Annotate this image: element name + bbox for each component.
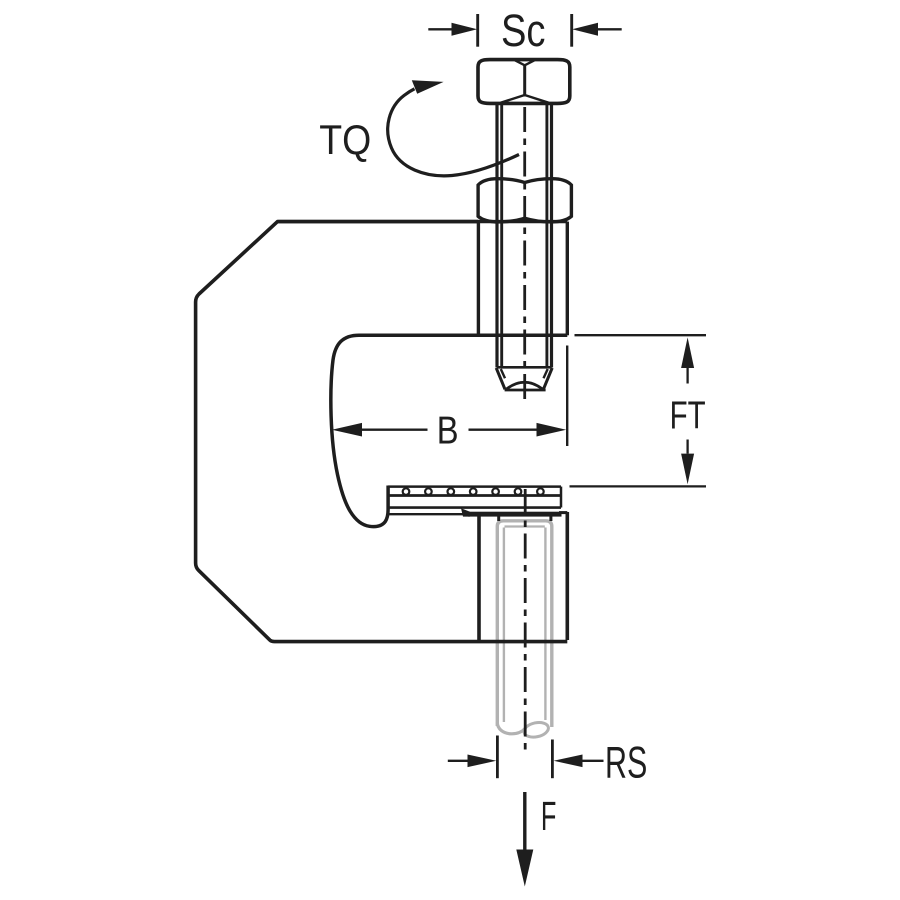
bolt tip bottom edge: [505, 389, 546, 392]
dimension RS left line: [448, 760, 468, 762]
rod top left corner black bit: [497, 515, 500, 522]
hex bolt head face divider: [523, 65, 526, 97]
torque arc arrowhead: [412, 80, 444, 94]
dimension B right line: [469, 429, 538, 431]
hex nut outline: [478, 179, 571, 222]
svg-text:F: F: [541, 793, 557, 839]
svg-text:FT: FT: [670, 394, 706, 437]
force arrow line: [523, 792, 526, 851]
serration circle 3: [448, 488, 455, 495]
dimension B right extension line: [566, 346, 568, 447]
bolt shaft outer right line: [550, 103, 553, 367]
serration circle 7: [537, 488, 544, 495]
threaded rod inner top line: [505, 525, 545, 527]
jaw plate bottom thick band: [468, 512, 562, 517]
lower block top right corner: [559, 511, 567, 514]
jaw plate middle line: [388, 494, 561, 497]
svg-text:TQ: TQ: [319, 116, 371, 163]
bolt boss right edge: [566, 222, 569, 336]
jaw plate top edge: [388, 485, 561, 488]
threaded rod bottom ellipse: [523, 720, 550, 739]
bolt centerline: [523, 107, 526, 402]
bolt tip shoulder line: [497, 366, 552, 369]
hex bolt head bottom chamfer V: [501, 95, 549, 103]
hex bolt head outline: [478, 60, 570, 104]
dimension B right arrowhead: [537, 423, 567, 437]
threaded rod inner left line: [503, 528, 505, 723]
dimension Sc left arrowhead: [452, 23, 478, 36]
svg-text:Sc: Sc: [501, 5, 546, 56]
threaded rod inner right line: [544, 528, 546, 721]
bolt boss left edge: [477, 222, 480, 336]
clamp body top edge: [278, 220, 568, 223]
threaded rod gray outline: [497, 521, 552, 739]
jaw plate lower line: [388, 506, 561, 509]
clamp body inner profile and jaw hook: [331, 335, 567, 526]
dimension Sc right leader line: [597, 28, 622, 30]
bolt shaft thread inner left line: [500, 103, 503, 367]
lower block left edge: [477, 515, 481, 640]
dimension B left arrowhead: [332, 423, 362, 437]
dimension Sc right extension tick: [570, 14, 573, 47]
dimension RS right line: [582, 760, 604, 762]
jaw plate right edge: [560, 487, 563, 508]
dimension FT bottom tail: [686, 440, 688, 454]
bolt tip right thread relief: [544, 369, 548, 378]
dimension FT bottom arrowhead: [681, 454, 694, 485]
svg-text:B: B: [437, 409, 459, 452]
serration circle 2: [425, 488, 432, 495]
bolt shaft thread inner right line: [545, 103, 548, 367]
lower block right edge: [565, 512, 569, 640]
serration circle 4: [470, 488, 477, 495]
dimension RS left tick: [496, 736, 499, 779]
rod centerline: [524, 489, 527, 752]
rod top right corner black bit: [549, 515, 552, 522]
dimension Sc left leader line: [428, 28, 452, 30]
dimension RS right tick: [551, 740, 554, 779]
jaw plate bottom band wedge: [461, 508, 470, 516]
serration circle 5: [492, 488, 499, 495]
jaw plate bottom edge line: [389, 513, 463, 515]
dimension FT bottom extension line: [570, 485, 707, 487]
svg-text:RS: RS: [605, 739, 647, 788]
dimension Sc right arrowhead: [572, 23, 598, 36]
bolt shaft outer left line: [495, 103, 498, 367]
threaded rod bottom cup arc: [497, 723, 525, 734]
dimension B left line: [361, 429, 428, 431]
dimension FT top arrowhead: [681, 337, 694, 368]
dimension FT top tail: [686, 368, 688, 384]
force arrowhead: [516, 850, 533, 887]
clamp body outer outline: [196, 222, 568, 642]
dimension Sc left extension tick: [476, 14, 479, 47]
bolt tip left taper: [496, 368, 505, 389]
bolt tip left thread relief: [501, 369, 505, 378]
dimension RS right arrowhead: [554, 755, 583, 768]
serration circle 1: [403, 488, 410, 495]
serration circle 6: [515, 488, 522, 495]
dimension RS left arrowhead: [468, 755, 497, 768]
dimension FT top extension line: [575, 334, 707, 336]
torque arc: [388, 89, 519, 176]
bolt tip right taper: [543, 368, 552, 389]
bolt tip dome arc: [507, 382, 543, 389]
hex bolt head top chamfer V: [515, 60, 534, 65]
